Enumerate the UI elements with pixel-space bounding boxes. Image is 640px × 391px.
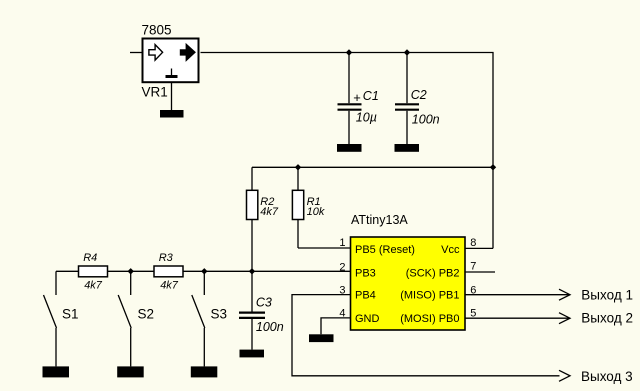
svg-text:10µ: 10µ [356, 111, 377, 125]
svg-text:C2: C2 [411, 88, 427, 102]
svg-text:4k7: 4k7 [160, 280, 179, 292]
wire input stub to VR1 [130, 52, 142, 54]
arrow output 3 [559, 370, 570, 381]
ground pin 4 [309, 334, 334, 342]
svg-text:PB5 (Reset): PB5 (Reset) [355, 244, 415, 256]
svg-text:GND: GND [355, 313, 380, 325]
ground C3 [240, 350, 265, 358]
resistor R1 [292, 167, 324, 248]
node C2 junction [404, 49, 410, 55]
switch S3 [192, 271, 227, 366]
capacitor C3 [239, 271, 284, 349]
svg-text:+: + [353, 90, 361, 105]
wire pin 6 to output 1 [465, 294, 570, 296]
arrow output 2 [559, 313, 570, 324]
resistor R4 [79, 252, 108, 291]
wire pin 2 net (PB3 row) [56, 270, 351, 272]
wire VR1 ground [171, 83, 173, 110]
wire pin 8 to Vcc rail [465, 247, 493, 249]
svg-text:Выход 1: Выход 1 [581, 287, 633, 302]
svg-text:VR1: VR1 [142, 85, 168, 100]
arrow output 1 [559, 289, 570, 300]
svg-text:C3: C3 [256, 296, 272, 310]
wire R1 to pin 1 [298, 247, 351, 249]
voltage regulator VR1 (7805) [142, 23, 199, 100]
node S2 junction [128, 268, 134, 274]
ground S3 [191, 366, 218, 377]
svg-text:Выход 2: Выход 2 [581, 311, 633, 326]
svg-text:S2: S2 [138, 307, 155, 322]
svg-text:C1: C1 [363, 89, 379, 103]
svg-text:(MISO) PB1: (MISO) PB1 [400, 290, 459, 302]
ground C1 [337, 144, 362, 152]
ground C2 [395, 144, 420, 152]
switch S2 [118, 271, 154, 366]
wire pin 4 to ground [321, 318, 351, 334]
svg-text:1: 1 [339, 237, 345, 249]
node R1 top junction [295, 164, 301, 170]
resistor R3 [154, 252, 183, 291]
svg-text:Выход 3: Выход 3 [581, 369, 633, 384]
svg-text:R3: R3 [159, 252, 174, 264]
node C3 junction [249, 268, 255, 274]
svg-text:4k7: 4k7 [260, 206, 279, 218]
svg-text:ATtiny13A: ATtiny13A [351, 213, 408, 227]
svg-text:100n: 100n [412, 112, 440, 126]
wire pin 5 to output 2 [465, 317, 570, 319]
IC U1 ATtiny13A [351, 213, 466, 330]
svg-text:7805: 7805 [142, 23, 172, 38]
ground S2 [117, 366, 144, 377]
switch S1 [44, 271, 79, 366]
svg-text:(MOSI) PB0: (MOSI) PB0 [400, 313, 459, 325]
svg-text:R4: R4 [83, 252, 97, 264]
wire reset pull-up rail [252, 166, 493, 168]
capacitor C2 [395, 53, 440, 145]
node C1 junction [346, 49, 352, 55]
wire pin 7 stub [465, 271, 495, 273]
svg-text:PB4: PB4 [355, 290, 376, 302]
capacitor C1 [338, 53, 379, 145]
ground S1 [43, 366, 70, 377]
svg-text:10k: 10k [307, 206, 325, 218]
svg-text:4k7: 4k7 [84, 280, 103, 292]
svg-text:PB3: PB3 [355, 267, 376, 279]
node S3 junction [201, 268, 207, 274]
wire pin 3 to output 3 [292, 295, 560, 376]
svg-text:S3: S3 [211, 307, 228, 322]
svg-text:100n: 100n [256, 320, 284, 334]
svg-text:(SCK) PB2: (SCK) PB2 [406, 267, 460, 279]
svg-text:7: 7 [470, 261, 476, 273]
svg-text:8: 8 [470, 237, 476, 249]
resistor R2 [247, 167, 279, 271]
wire Vcc rail (VR1 output to chip pin 8 corner) [201, 53, 494, 249]
svg-text:S1: S1 [62, 307, 79, 322]
svg-text:Vcc: Vcc [441, 244, 460, 256]
ground VR1 [160, 110, 184, 118]
node Vcc rail junction [490, 164, 496, 170]
